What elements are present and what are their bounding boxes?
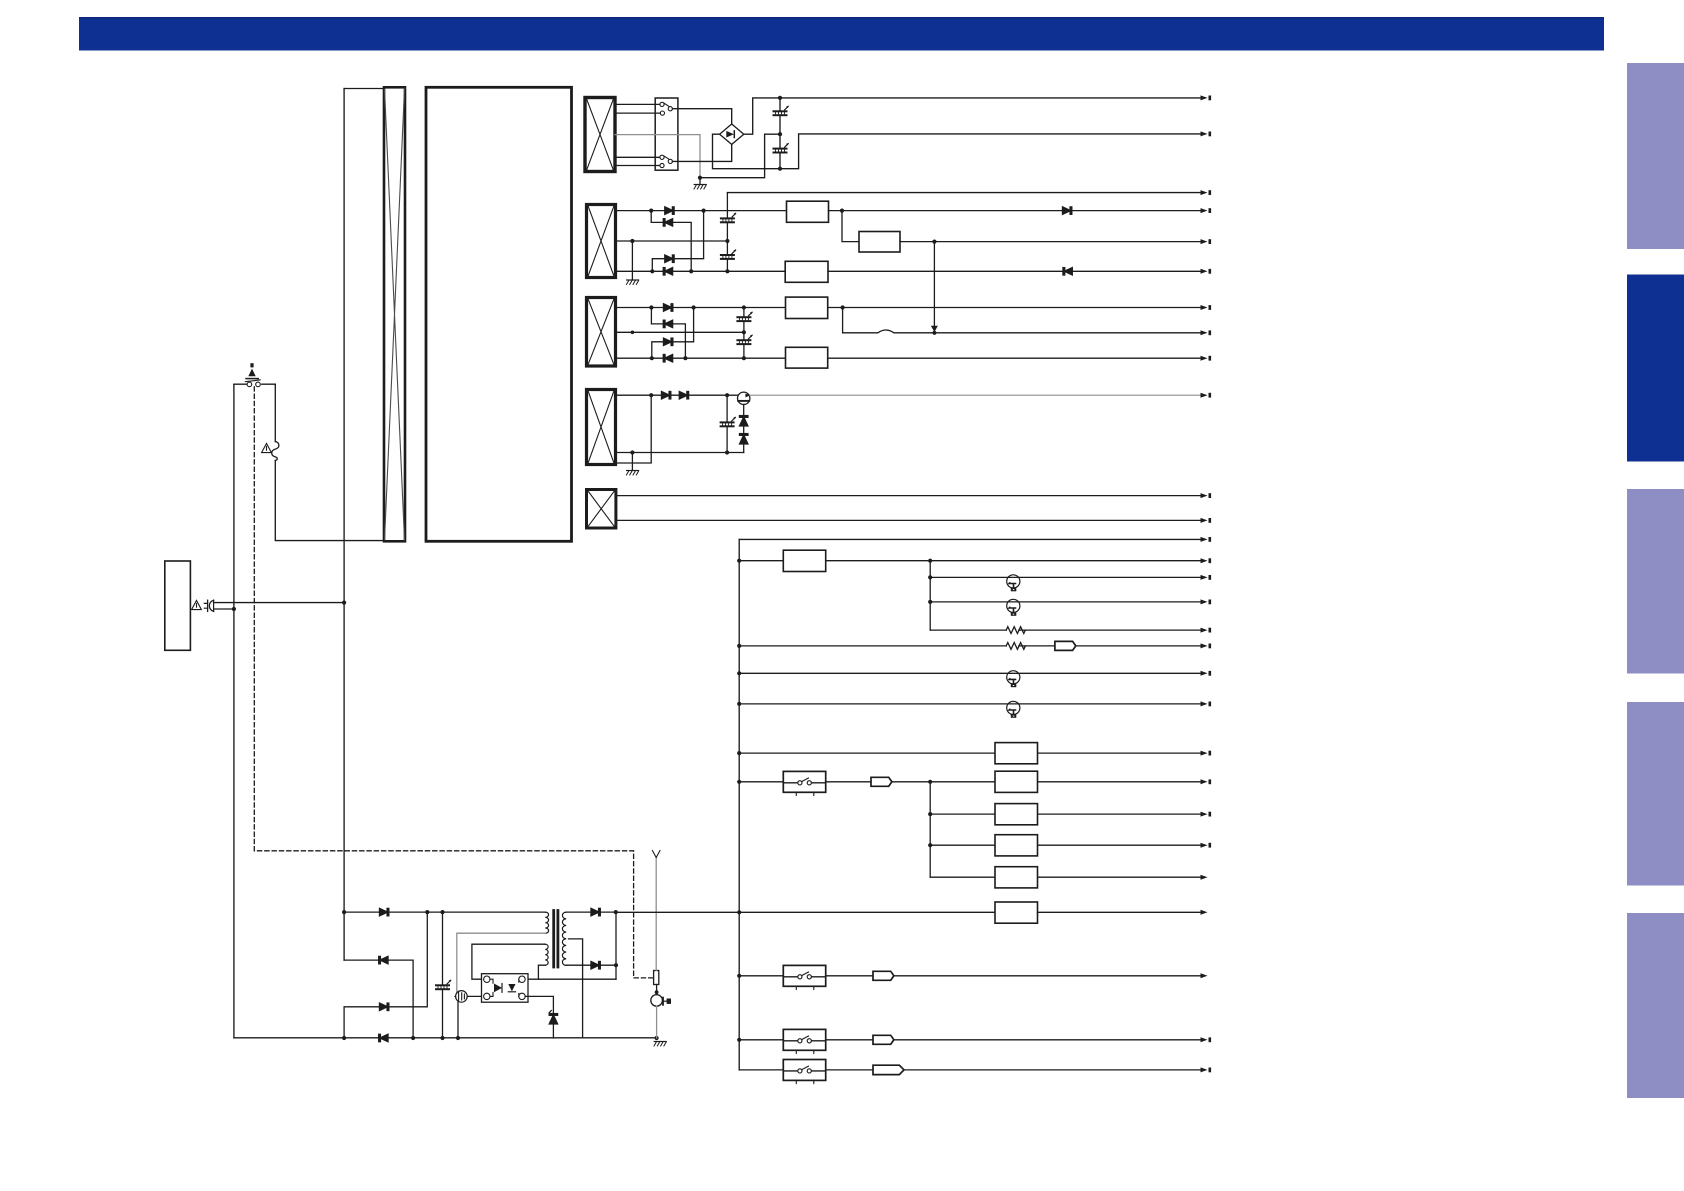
node: plug to neutral rail (232, 607, 236, 611)
diode D9 (664, 338, 673, 345)
node: M4 out branch (841, 305, 845, 309)
wire: line 753 (739, 752, 1201, 754)
ground at CN2 (626, 241, 638, 285)
noise filter box (165, 561, 191, 650)
resistor R1 (1006, 627, 1025, 634)
arrow: out 753 (1201, 751, 1212, 756)
wire: branch vertical 930b (929, 782, 931, 877)
capacitor C6 (737, 335, 752, 344)
main control board box (426, 87, 572, 541)
arrow: out 332 (1201, 330, 1212, 335)
switch SW2 (783, 771, 825, 795)
arrow: out 877 (1201, 875, 1208, 880)
arrow: out 1070 (1201, 1067, 1212, 1072)
capacitor C5 (737, 312, 752, 321)
wire: aux winding top link (472, 944, 545, 979)
header bar (79, 17, 1604, 51)
wire: M4 out (828, 307, 1202, 309)
module M4 (786, 297, 828, 318)
arrow: out 495 (1201, 493, 1212, 498)
wire: line 877 (930, 876, 1201, 878)
wire: feedback line 979 (522, 978, 616, 980)
node: rail 1040 (737, 1038, 741, 1042)
fan motor FM1 (651, 985, 671, 1039)
optocoupler U1 (482, 974, 529, 1003)
node: M2 out branch (932, 240, 936, 244)
wire: lamp line 704 (739, 703, 1201, 705)
wire: CN2 pin3 line (616, 240, 728, 242)
wire: switched live down to thermal cutout (274, 384, 276, 441)
selector contact lower a (660, 155, 664, 159)
wire: lamp line 602 (930, 601, 1201, 603)
wire: line 1070 (739, 1069, 1201, 1071)
arrow: 0V raw out (1201, 131, 1212, 136)
voltage selector switch box (655, 98, 678, 170)
wire: secondary top out (566, 911, 616, 913)
connector CN4 (587, 390, 616, 465)
diode D6 (1063, 268, 1072, 275)
wire: CN2 pin5 line (616, 270, 786, 272)
wire: M2-to-mid vertical (933, 242, 935, 327)
capacitor C4 (721, 250, 736, 259)
side tab 2 (active) (1627, 275, 1684, 462)
wire: mid out with hop (843, 308, 1202, 333)
arrow: out 814 (1201, 812, 1212, 817)
node: rail 912 (737, 910, 741, 914)
ground at PSU (654, 1042, 666, 1047)
wire: CN4 out thin (750, 394, 1202, 396)
diode D2 (663, 219, 672, 226)
dashed mechanical link from switch (254, 387, 653, 978)
thermal protector (S-curl) (272, 442, 279, 461)
diode D13 (380, 908, 389, 915)
module M1 (787, 201, 829, 222)
primary winding lower (545, 944, 548, 965)
fuse F1 (vertical) (654, 971, 659, 985)
selector lever lower (664, 156, 669, 159)
side tab 4 (1627, 702, 1684, 886)
wire: CN4 wrap line (616, 395, 652, 463)
secondary winding (562, 912, 566, 965)
node: cap chain bottom (778, 167, 782, 171)
arrow: +V raw out (1201, 95, 1212, 100)
wire: CN1 pin4 (615, 156, 660, 158)
core bars (554, 911, 558, 968)
arrow: out 520 (1201, 518, 1212, 523)
wire: snubber vertical (726, 193, 728, 272)
wire: left long rail (AC live) (343, 89, 345, 961)
node: 442 tap (440, 910, 444, 914)
arrow: out 782 (1201, 779, 1212, 784)
wire: M2 out (900, 241, 1202, 243)
mains plug (204, 600, 213, 611)
wire: M2 feed (842, 211, 859, 242)
switch SW3 (783, 965, 825, 989)
arrow: out 210 (1201, 208, 1212, 213)
node: snubber pin3 (725, 239, 729, 243)
module M6 (783, 550, 825, 571)
selector lever upper (664, 103, 669, 107)
arrow: out 976 (1201, 973, 1208, 978)
ground at CN1 (694, 178, 706, 189)
node: 930-814 (928, 812, 932, 816)
transformer T1 (545, 911, 566, 968)
arrow: out 395 (1201, 393, 1212, 398)
connector CN2 (587, 205, 616, 278)
lamp LP3 (1007, 671, 1020, 688)
wire: line 976 (739, 975, 1201, 977)
fuse tag FT4 (873, 1035, 894, 1044)
wire: 912 after module (1038, 911, 1202, 913)
node: CN3 pinA c (742, 305, 746, 309)
warning marker at power switch (246, 363, 258, 378)
wire: neutral rail left (233, 385, 235, 1038)
bridge rectifier DB1 (720, 124, 744, 144)
lamp LP4 (1007, 701, 1020, 718)
wire: plug live to rail (214, 602, 345, 604)
side tab 3 (1627, 489, 1684, 674)
diode D18 (591, 962, 600, 969)
wire: opto to zener (525, 996, 553, 1013)
arrow: out 630 (1201, 628, 1212, 633)
wire: D8 branch (651, 308, 685, 359)
node: rail 976 (737, 974, 741, 978)
primary winding upper (545, 912, 548, 933)
selector contact upper a (660, 102, 664, 106)
wire: line 814 (930, 813, 1201, 815)
wire: CN4 bottom line (616, 452, 744, 454)
wire: steering branch 960 (344, 960, 413, 1038)
thermal sensor TH1 (738, 392, 751, 404)
node: CN4 bot cap (725, 450, 729, 454)
MOSFET Q1 (455, 991, 467, 1003)
selector contact pin5 (660, 163, 664, 167)
node: CN4 gnd tap (630, 450, 634, 454)
node: CN3 mid small (631, 331, 635, 335)
node: CN3 bot c (742, 356, 746, 360)
node: CN2 pin1 branch a (649, 209, 653, 213)
sensor tip (652, 851, 660, 858)
node: CN3 pinA b (692, 305, 696, 309)
wire: CN1 pin5 (615, 165, 660, 167)
wire: cap midpoint link (700, 134, 780, 178)
wire: selector upper out to bridge top (672, 109, 731, 124)
wire: lamp line 673 (739, 672, 1201, 674)
arrow: out 602 (1201, 599, 1212, 604)
node: CN4 top b (725, 393, 729, 397)
node: mid out junction (932, 331, 936, 335)
node: CN4 top a (649, 393, 653, 397)
node: 782 branch (928, 780, 932, 784)
wire: line 845 (930, 844, 1201, 846)
diode D15 (380, 1003, 389, 1010)
side tab 5 (1627, 913, 1684, 1098)
node: 560 branch (928, 559, 932, 563)
wire: CN3 mid line (616, 331, 744, 333)
module M8 (995, 771, 1038, 792)
node: 930-602 (928, 600, 932, 604)
module M3 (785, 261, 828, 282)
wire: primary ground rail (234, 1037, 657, 1039)
node: 427 tap (425, 910, 429, 914)
wire: resistor line 646 (739, 645, 1201, 647)
wire: link top-left (344, 88, 384, 90)
connector CN5 (587, 490, 616, 529)
arrow: out 912 (1201, 910, 1208, 915)
fuse tag FT1 (1055, 641, 1076, 650)
arrow: out 704 (1201, 701, 1212, 706)
wire: secondary out to bus (616, 911, 995, 913)
module M7 (995, 743, 1038, 764)
node: rail 344 (342, 1036, 346, 1040)
wire: selector lower out to bridge bottom (672, 144, 731, 161)
wire: primary feed 912 (344, 911, 545, 913)
wire: M5 out (828, 357, 1202, 359)
arrow: out 539 (1201, 537, 1212, 542)
diode D17 (591, 908, 600, 915)
resistor R2 (1006, 643, 1025, 650)
junction arrow (931, 326, 938, 332)
wire: mosfet drain to opto (467, 995, 483, 997)
wire: mosfet source (457, 1002, 459, 1038)
wire: CN1 pin3 (gray) (615, 135, 700, 178)
arrow: out 241 (1201, 239, 1212, 244)
node: 930-577 (928, 575, 932, 579)
power switch SW1 (234, 380, 275, 387)
wire: rectifier return vertical (615, 912, 617, 979)
node: 930-845 (928, 843, 932, 847)
selector contact lower b (668, 159, 672, 163)
node: live rail to primary line (342, 910, 346, 914)
wire: D3 branch (652, 211, 703, 272)
sensor lead (gray) (655, 858, 657, 971)
arrow: out 845 (1201, 843, 1212, 848)
node: rail 442 (440, 1036, 444, 1040)
wire: CN5 pin2 (616, 519, 1202, 521)
node: secondary top junction (614, 910, 618, 914)
arrow: out 673 (1201, 671, 1212, 676)
arrow: out 1040 (1201, 1037, 1212, 1042)
switch SW4 (783, 1029, 825, 1053)
wire: CN1 pin1 (615, 103, 660, 105)
arrow: aux out 192 (1201, 190, 1212, 195)
node: rail 458 (456, 1036, 460, 1040)
diode stack Z1 Z2 (740, 405, 748, 453)
ground at CN4 (626, 453, 638, 476)
wire: steering branch 1007 (344, 912, 427, 1038)
node: rail 560 (737, 559, 741, 563)
wire: DC bus top (739, 538, 1201, 540)
wire: bridge - to lower rail (713, 134, 1202, 169)
module M12 (995, 902, 1038, 923)
module M10 (995, 835, 1038, 856)
wire: CN3 cap vertical (743, 308, 745, 359)
node: pin5 b (689, 269, 693, 273)
wire: bridge + to top rail (744, 98, 1202, 134)
node: ground junction CN1 (698, 176, 702, 180)
node: rail 753 (737, 751, 741, 755)
arrow: out 307 (1201, 305, 1212, 310)
lamp LP2 (1007, 599, 1020, 616)
side tab 1 (1627, 63, 1684, 249)
capacitor C7 (721, 395, 736, 452)
ribbon cable crossover box (384, 87, 405, 541)
arrow: out 271 (1201, 269, 1212, 274)
warning triangle at thermal protector (262, 443, 272, 452)
bulk capacitor C8 (436, 912, 451, 1038)
node: rail end (655, 1036, 659, 1040)
module M2 (859, 232, 900, 253)
capacitor C3 (721, 213, 736, 222)
wire: CN1 pin2 (615, 112, 660, 114)
zener Z3 (549, 1011, 557, 1038)
node: rail 646 (737, 644, 741, 648)
fuse tag FT2 (871, 777, 892, 786)
node: CN3 pinA a (649, 305, 653, 309)
wire: secondary bottom out (566, 964, 616, 966)
warning triangle at plug (192, 600, 202, 609)
module M9 (995, 804, 1038, 825)
node: rail 782 (737, 780, 741, 784)
node: rail 673 (737, 671, 741, 675)
wire: CN4 top line (616, 394, 738, 396)
wire: D9 branch (652, 308, 694, 359)
arrow: out 577 (1201, 575, 1212, 580)
wire: thermal cutout down and right to cable box (275, 461, 384, 541)
wire: aux line 192 (727, 192, 1201, 194)
capacitor C1 (774, 98, 789, 134)
wire: aux winding bottom link (538, 965, 545, 979)
wire: branch vertical 930 (929, 561, 931, 630)
wire: resistor line 630 (930, 629, 1201, 631)
node: 616-965 (614, 963, 618, 967)
node: rail 413 (411, 1036, 415, 1040)
wire: primary drain link (gray) (456, 933, 545, 996)
wire: M1 out (829, 210, 1202, 212)
wire: CN5 pin1 (616, 495, 1202, 497)
wire: plug neutral to rail (214, 608, 234, 610)
wire: line 560 (739, 560, 1201, 562)
node: M1 out branch (840, 209, 844, 213)
switch SW5 (783, 1060, 825, 1084)
fuse tag FT5 (873, 1065, 904, 1074)
node: pin5 c (725, 269, 729, 273)
node: plug to live rail (342, 601, 346, 605)
wire: line 1040 (739, 1039, 1201, 1041)
wire: line 782 (739, 781, 1201, 783)
fuse tag FT3 (873, 971, 894, 980)
arrow: out 358 (1201, 356, 1212, 361)
node: CN2 pin1 branch b (702, 209, 706, 213)
diode D7 (664, 304, 673, 311)
arrow: out 646 (1201, 643, 1212, 648)
wire: DC bus rail (738, 539, 740, 1070)
wire: CN3 bottom line (616, 357, 786, 359)
wire: CN2 pin1 line (616, 210, 787, 212)
diode D16 (379, 1034, 388, 1041)
diode D3 (665, 255, 674, 262)
diode D14 (379, 956, 388, 963)
module M11 (995, 867, 1038, 888)
diode D12 (679, 392, 688, 399)
diode D10 (663, 355, 672, 362)
node: cap chain top (778, 96, 782, 100)
module M5 (786, 347, 828, 368)
lamp LP1 (1007, 575, 1020, 592)
arrow: out 560 (1201, 558, 1212, 563)
wire: CN3 pinA line (616, 307, 786, 309)
selector contact pin2 (660, 111, 664, 115)
capacitor C2 (774, 134, 789, 169)
selector contact upper b (668, 107, 672, 111)
diode D1 (665, 207, 674, 214)
wire: lamp line 577 (930, 576, 1201, 578)
connector CN1 (585, 98, 615, 172)
node: CN2 gnd tap (630, 239, 634, 243)
node: cap mid (778, 132, 782, 136)
diode D11 (662, 392, 671, 399)
connector CN3 (587, 298, 616, 367)
diode D4 (663, 268, 672, 275)
node: CN3 bot a (650, 356, 654, 360)
node: rail 704 (737, 702, 741, 706)
node: CN3 mid cap (742, 330, 746, 334)
node: CN3 bot b (683, 356, 687, 360)
wire: D2 branch (651, 211, 691, 272)
wire: secondary mid tap (569, 939, 583, 1038)
diode D8 (663, 320, 672, 327)
wire: M3 out (828, 270, 1202, 272)
diode D5 (1063, 207, 1072, 214)
node: pin5 a (650, 269, 654, 273)
